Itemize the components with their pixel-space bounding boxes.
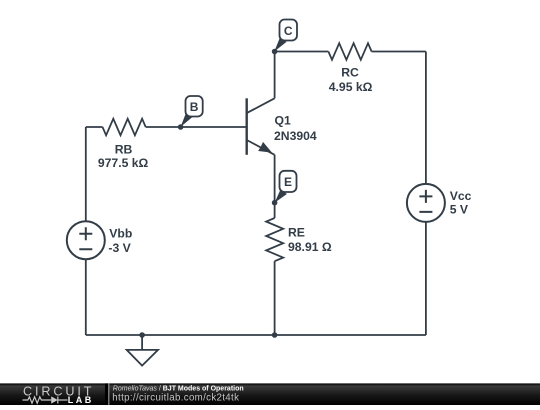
svg-text:98.91 Ω: 98.91 Ω (288, 240, 332, 254)
svg-text:RB: RB (115, 143, 133, 157)
svg-text:http://circuitlab.com/ck2t4tk: http://circuitlab.com/ck2t4tk (112, 392, 239, 403)
svg-text:C: C (284, 24, 293, 38)
svg-text:RC: RC (341, 66, 359, 80)
svg-text:LAB: LAB (68, 395, 94, 405)
svg-text:4.95 kΩ: 4.95 kΩ (329, 80, 373, 94)
svg-text:977.5 kΩ: 977.5 kΩ (98, 156, 149, 170)
svg-text:RE: RE (288, 226, 305, 240)
svg-text:Q1: Q1 (275, 114, 291, 128)
svg-text:2N3904: 2N3904 (274, 129, 317, 143)
svg-text:Vbb: Vbb (109, 227, 132, 241)
svg-text:E: E (284, 175, 292, 189)
svg-text:5 V: 5 V (450, 203, 469, 217)
svg-text:-3 V: -3 V (108, 241, 131, 255)
svg-text:Vcc: Vcc (450, 189, 472, 203)
svg-text:RomelioTavas / BJT Modes of Op: RomelioTavas / BJT Modes of Operation (113, 385, 244, 392)
svg-text:B: B (190, 100, 199, 114)
